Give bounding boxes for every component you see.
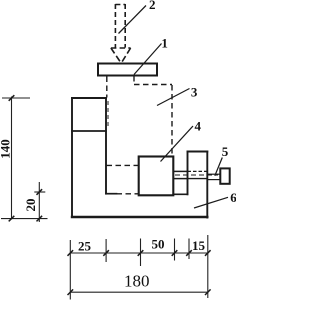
svg-text:2: 2: [149, 0, 156, 12]
svg-text:25: 25: [78, 239, 92, 254]
svg-text:1: 1: [161, 35, 168, 50]
svg-text:3: 3: [191, 85, 198, 100]
svg-text:140: 140: [0, 139, 13, 159]
svg-text:4: 4: [194, 119, 201, 134]
svg-text:6: 6: [230, 190, 236, 205]
svg-text:15: 15: [192, 238, 206, 253]
svg-text:50: 50: [152, 237, 165, 252]
svg-text:20: 20: [23, 199, 38, 212]
svg-text:5: 5: [222, 144, 229, 159]
svg-text:180: 180: [124, 272, 150, 291]
